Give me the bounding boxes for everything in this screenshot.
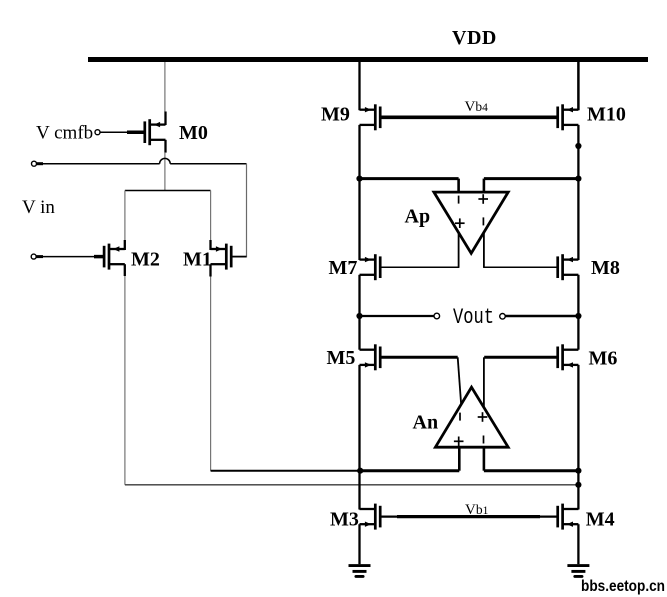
wire An output right bbox=[483, 357, 485, 408]
wire M10 source down to cascode node bbox=[577, 125, 579, 179]
wire lower node to M3 drain bbox=[358, 471, 360, 510]
wire M4 source to ground bbox=[577, 524, 579, 564]
op-amp An (gain boost, NMOS side) bbox=[435, 387, 508, 447]
wire tail node horizontal bbox=[125, 190, 211, 192]
svg-text:M8: M8 bbox=[591, 257, 620, 279]
transistor M6 bbox=[558, 344, 579, 370]
wire M2 source cross wire bbox=[125, 484, 579, 486]
node cross wire junction at right column bbox=[575, 482, 581, 488]
wire An output left (slanted) bbox=[458, 357, 462, 405]
svg-text:V cmfb: V cmfb bbox=[36, 123, 93, 144]
node left cascode junction bbox=[356, 176, 362, 182]
wire lower node left segment bbox=[360, 469, 460, 472]
wire Vb1 bias line M3 gate to M4 gate bbox=[381, 515, 557, 517]
op-amp Ap (gain boost, PMOS side) bbox=[434, 192, 508, 253]
transistor M10 bbox=[558, 104, 579, 130]
wire top cascode node right segment bbox=[484, 177, 579, 180]
node lower left junction bbox=[357, 468, 363, 474]
wire M8 source to Vout node bbox=[577, 275, 579, 316]
svg-text:V in: V in bbox=[22, 197, 55, 218]
node Vout right junction bbox=[575, 313, 581, 319]
wire M2 source down bbox=[124, 264, 126, 276]
transistor M1 bbox=[211, 244, 232, 270]
wire tail to M2 drain bbox=[124, 191, 126, 241]
junction M10 source bbox=[575, 143, 581, 149]
node lower right junction bbox=[575, 468, 581, 474]
transistor M7 bbox=[360, 254, 381, 280]
svg-text:M3: M3 bbox=[330, 509, 359, 531]
wire Vb4 bias line M9 gate to M10 gate bbox=[381, 116, 557, 120]
svg-text:M7: M7 bbox=[329, 257, 358, 279]
node Vout left junction bbox=[356, 313, 362, 319]
wire VDD to M10 drain bbox=[577, 62, 580, 110]
wire tail to M1 drain bbox=[210, 191, 212, 241]
wire lower node to M4 drain bbox=[577, 471, 579, 510]
wire M8 gate lead bbox=[483, 266, 557, 268]
wire M1 gate lead to Vin+ riser bbox=[232, 256, 247, 258]
wire Ap input left stub bbox=[457, 179, 460, 192]
wire An input right stub bbox=[483, 447, 486, 471]
transistor M2 bbox=[104, 244, 125, 270]
wire Vout left bbox=[360, 315, 434, 317]
ground (right) bbox=[567, 566, 589, 577]
svg-text:M4: M4 bbox=[586, 509, 615, 531]
wire M1 source down to An output rail bbox=[209, 264, 211, 276]
svg-text:VDD: VDD bbox=[452, 27, 497, 49]
svg-text:M10: M10 bbox=[587, 104, 626, 126]
wire cascode node to M7 drain bbox=[358, 179, 360, 260]
transistor M3 bbox=[360, 504, 381, 530]
Vin+ terminal bbox=[32, 161, 37, 166]
wire M7 gate lead bbox=[381, 266, 460, 268]
wire Ap output left to M7 gate bbox=[458, 233, 460, 267]
wire M5 gate lead bbox=[381, 356, 458, 359]
wire VDD to M9 drain bbox=[358, 62, 360, 110]
svg-text:M6: M6 bbox=[589, 348, 618, 370]
wire Ap input right stub bbox=[483, 179, 486, 192]
Vout right terminal bbox=[500, 314, 506, 320]
transistor M0 bbox=[145, 119, 166, 145]
wire Vout to M5 drain bbox=[358, 316, 360, 350]
transistor M5 bbox=[360, 344, 381, 370]
wire M9 source down to cascode node bbox=[358, 125, 360, 179]
ground (left) bbox=[349, 566, 371, 577]
wire M0 drain from VDD rail bbox=[164, 62, 166, 112]
svg-text:M2: M2 bbox=[131, 249, 160, 271]
Vin- terminal bbox=[31, 254, 36, 259]
wire M1 source rail to left column bbox=[211, 470, 360, 472]
svg-text:M1: M1 bbox=[183, 249, 212, 271]
wire M7 source to Vout node bbox=[358, 275, 360, 316]
wire V cmfb to M0 gate bbox=[100, 131, 127, 133]
wire Vin+ to M1 gate (hops over M0 source wire) bbox=[37, 162, 43, 165]
wire top cascode node left segment bbox=[360, 177, 459, 180]
transistor M4 bbox=[558, 504, 579, 530]
wire Vout right bbox=[505, 315, 578, 318]
svg-text:Vb1: Vb1 bbox=[465, 502, 489, 518]
wire M0 source down to tail node bbox=[164, 140, 166, 153]
wire Ap output right to M8 gate bbox=[483, 232, 485, 267]
transistor M8 bbox=[558, 254, 579, 280]
VDD power rail bbox=[88, 57, 648, 62]
svg-text:M0: M0 bbox=[179, 122, 208, 144]
wire An input left stub bbox=[458, 447, 461, 471]
wire Vout to M6 drain bbox=[577, 316, 579, 350]
wire M3 source to ground bbox=[358, 524, 360, 564]
svg-text:Ap: Ap bbox=[405, 206, 431, 228]
V cmfb terminal bbox=[95, 130, 100, 135]
wire Vin- to M2 gate bbox=[37, 255, 44, 258]
svg-text:M9: M9 bbox=[321, 104, 350, 126]
svg-text:Vb4: Vb4 bbox=[465, 99, 489, 115]
Vout left terminal bbox=[434, 313, 440, 319]
svg-text:M5: M5 bbox=[327, 347, 356, 369]
wire M6 source down bbox=[577, 365, 579, 471]
svg-text:An: An bbox=[413, 412, 439, 434]
svg-text:bbs.eetop.cn: bbs.eetop.cn bbox=[581, 578, 665, 595]
wire M6 gate lead bbox=[484, 356, 557, 359]
wire lower node right segment bbox=[484, 469, 579, 472]
wire cascode node to M8 drain bbox=[577, 179, 579, 260]
node right cascode junction bbox=[575, 176, 581, 182]
svg-text:Vout: Vout bbox=[453, 305, 494, 330]
wire M5 source down bbox=[358, 365, 360, 471]
transistor M9 bbox=[360, 104, 381, 130]
